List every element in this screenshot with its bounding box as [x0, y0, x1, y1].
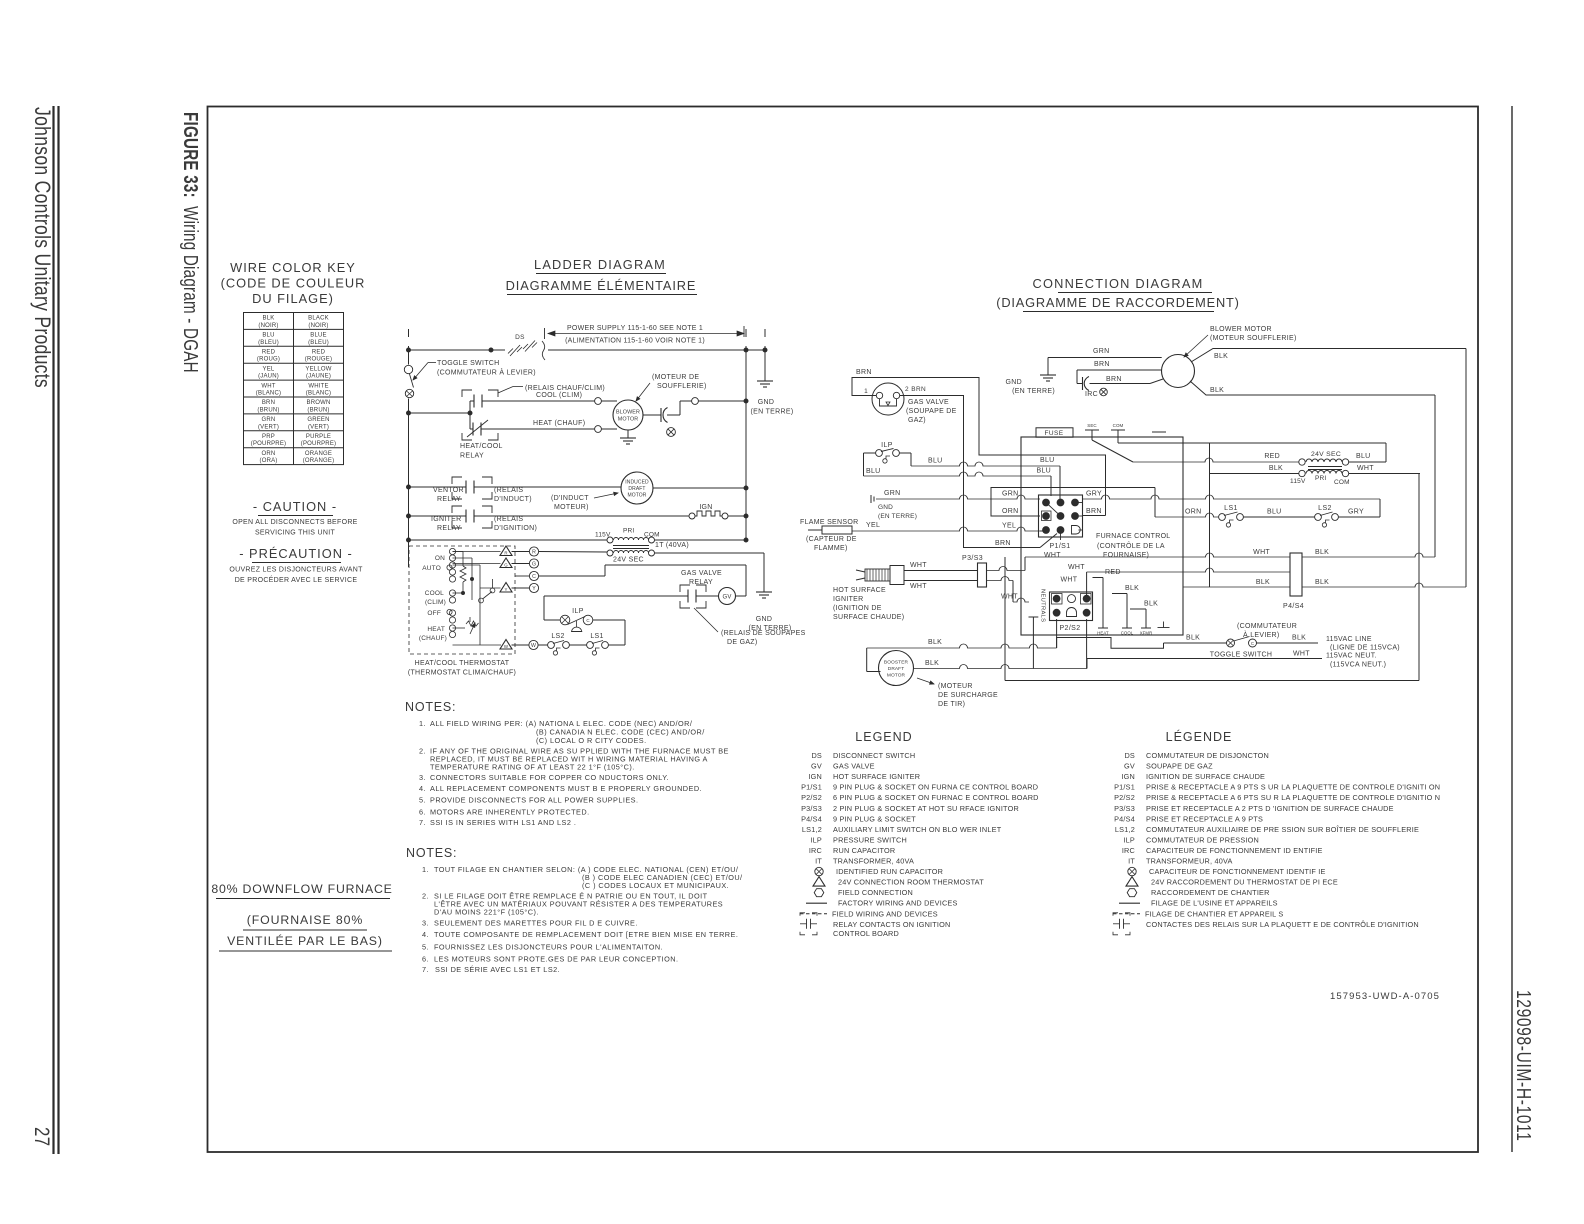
svg-text:(RELAIS: (RELAIS [494, 516, 523, 523]
svg-text:MOTOR: MOTOR [887, 673, 906, 679]
svg-text:SURFACE CHAUDE): SURFACE CHAUDE) [833, 614, 904, 621]
wire cool rung [482, 400, 595, 402]
wire WHT primary [1349, 473, 1420, 475]
svg-text:BLU: BLU [1040, 457, 1055, 464]
svg-text:FIELD WIRING AND DEVICES: FIELD WIRING AND DEVICES [832, 909, 938, 918]
wire color key table [244, 313, 344, 465]
svg-text:ORN: ORN [1185, 509, 1201, 516]
svg-text:GAS VALVE: GAS VALVE [908, 399, 949, 406]
wire BLK primary [1210, 473, 1299, 475]
svg-text:3.: 3. [422, 919, 429, 928]
svg-text:FLAME SENSOR: FLAME SENSOR [800, 519, 858, 526]
figure border box [208, 107, 1479, 1153]
svg-text:9 PIN PLUG & SOCKET: 9 PIN PLUG & SOCKET [833, 814, 916, 823]
svg-text:24V RACCORDEMENT DU THERMOSTAT: 24V RACCORDEMENT DU THERMOSTAT DE PI ECE [1151, 878, 1338, 887]
svg-text:LÉGENDE: LÉGENDE [1166, 729, 1233, 744]
svg-text:6.: 6. [422, 955, 429, 964]
svg-text:BLU: BLU [1267, 509, 1282, 516]
ground 24V [756, 591, 772, 593]
svg-text:WHT: WHT [261, 383, 275, 389]
svg-text:P1/S1: P1/S1 [801, 783, 822, 792]
svg-text:WHT: WHT [1357, 465, 1374, 472]
svg-text:115VAC NEUT.: 115VAC NEUT. [1326, 653, 1377, 660]
svg-text:(MOTEUR DE: (MOTEUR DE [652, 374, 699, 381]
svg-text:BRN: BRN [856, 369, 872, 376]
svg-text:DE GAZ): DE GAZ) [727, 639, 758, 646]
svg-text:WHT: WHT [1061, 577, 1078, 584]
boundary bottom neutral bus [1004, 557, 1006, 681]
svg-text:BRN: BRN [1106, 376, 1122, 383]
svg-text:IGN: IGN [808, 772, 822, 781]
svg-text:BLK: BLK [1292, 635, 1306, 642]
svg-text:1.: 1. [419, 719, 426, 728]
svg-text:FOURNISSEZ LES DISJONCTEURS PO: FOURNISSEZ LES DISJONCTEURS POUR L'ALIME… [434, 943, 663, 952]
svg-text:WHITE: WHITE [308, 383, 328, 389]
svg-text:DS: DS [811, 751, 822, 760]
svg-text:CONTACTES DES RELAIS SUR LA PL: CONTACTES DES RELAIS SUR LA PLAQUETT E D… [1146, 920, 1419, 929]
neutral terminal bar lower [1029, 616, 1039, 618]
svg-text:BLOWER: BLOWER [616, 410, 640, 416]
svg-text:4.: 4. [419, 784, 426, 793]
toggle switch DS1 on left rail [404, 365, 412, 373]
wire BRN to P1S1 [1040, 534, 1057, 548]
svg-text:(RELAIS DE SOUPAPES: (RELAIS DE SOUPAPES [721, 630, 806, 637]
svg-text:TOGGLE SWITCH: TOGGLE SWITCH [1210, 652, 1273, 659]
wire gas valve rung [544, 595, 688, 597]
svg-text:FOURNAISE): FOURNAISE) [1103, 552, 1149, 559]
transformer 1T [607, 537, 613, 543]
svg-text:RED: RED [262, 350, 276, 356]
svg-text:CAPACITEUR DE FONCTIONNEMENT I: CAPACITEUR DE FONCTIONNEMENT ID ENTIFIE [1146, 846, 1323, 855]
svg-text:HEAT/COOL: HEAT/COOL [460, 443, 503, 450]
svg-text:(SOUPAPE DE: (SOUPAPE DE [906, 408, 957, 415]
svg-text:P1/S1: P1/S1 [1114, 783, 1135, 792]
svg-text:GRN: GRN [1093, 348, 1109, 355]
svg-text:(BRUN): (BRUN) [307, 407, 329, 413]
svg-text:RED: RED [1105, 569, 1121, 576]
thermostat terminals [449, 548, 455, 554]
svg-text:XFMR: XFMR [1140, 631, 1153, 636]
svg-text:PRESSURE SWITCH: PRESSURE SWITCH [833, 835, 907, 844]
thermostat fan switch [479, 598, 484, 603]
svg-text:PURPLE: PURPLE [306, 434, 331, 440]
svg-text:(C) LOCAL O R CITY CODES.: (C) LOCAL O R CITY CODES. [536, 736, 647, 745]
node right rail [745, 329, 747, 337]
svg-text:FILAGE DE CHANTIER ET APPAREIL: FILAGE DE CHANTIER ET APPAREIL S [1145, 909, 1283, 918]
svg-text:IT: IT [1128, 857, 1135, 866]
svg-text:TEMPERATURE RATING OF AT LEAST: TEMPERATURE RATING OF AT LEAST 22 1°F (1… [430, 763, 635, 772]
svg-text:RACCORDEMENT DE CHANTIER: RACCORDEMENT DE CHANTIER [1151, 888, 1270, 897]
svg-text:5.: 5. [419, 796, 426, 805]
svg-text:YELLOW: YELLOW [305, 366, 331, 372]
svg-text:PRP: PRP [262, 434, 275, 440]
svg-text:ORN: ORN [1002, 508, 1018, 515]
wire 24V R [539, 551, 608, 554]
svg-text:(RELAIS CHAUF/CLIM): (RELAIS CHAUF/CLIM) [525, 385, 605, 392]
svg-text:GAS VALVE: GAS VALVE [681, 570, 722, 577]
svg-text:IGN: IGN [699, 504, 712, 511]
page left double rule [52, 106, 54, 1154]
wire ILP to LS1 [593, 619, 625, 621]
svg-text:BROWN: BROWN [307, 400, 331, 406]
svg-text:7.: 7. [422, 965, 429, 974]
svg-text:Wiring Diagram - DGAH: Wiring Diagram - DGAH [179, 206, 202, 373]
svg-text:(VERT): (VERT) [308, 424, 329, 430]
svg-text:(BLEU): (BLEU) [308, 340, 329, 346]
svg-text:BLK: BLK [1214, 353, 1228, 360]
thermostat internal wiring [453, 551, 464, 553]
svg-text:D'INDUCT): D'INDUCT) [494, 496, 532, 503]
svg-text:IGNITER: IGNITER [431, 516, 462, 523]
svg-text:P4/S4: P4/S4 [1114, 814, 1135, 823]
svg-text:NOTES:: NOTES: [406, 846, 457, 860]
plug P4/S4 [1290, 553, 1302, 596]
svg-text:24V CONNECTION ROOM THERMOSTAT: 24V CONNECTION ROOM THERMOSTAT [838, 878, 984, 887]
svg-text:COOL (CLIM): COOL (CLIM) [536, 392, 582, 399]
terminal C [515, 575, 530, 577]
svg-text:P4/S4: P4/S4 [1283, 603, 1304, 610]
svg-text:DISCONNECT SWITCH: DISCONNECT SWITCH [833, 751, 915, 760]
svg-text:Johnson Controls Unitary Produ: Johnson Controls Unitary Products [29, 107, 53, 388]
svg-text:IDENTIFIED RUN CAPACITOR: IDENTIFIED RUN CAPACITOR [836, 867, 943, 876]
power supply dimension [544, 328, 546, 339]
wire igniter rung [474, 515, 689, 517]
svg-text:À LEVIER): À LEVIER) [1243, 630, 1280, 639]
svg-text:WIRE COLOR KEY: WIRE COLOR KEY [230, 260, 356, 275]
svg-text:P1/S1: P1/S1 [1049, 543, 1070, 550]
svg-text:COOL: COOL [1121, 631, 1134, 636]
svg-text:PROVIDE DISCONNECTS FOR ALL PO: PROVIDE DISCONNECTS FOR ALL POWER SUPPLI… [430, 796, 638, 805]
svg-text:YEL: YEL [1002, 523, 1016, 530]
svg-text:YEL: YEL [866, 522, 880, 529]
terminal XFMR [1141, 627, 1151, 629]
svg-text:OFF: OFF [427, 610, 441, 617]
svg-text:BLK: BLK [1186, 635, 1200, 642]
svg-text:(FOURNAISE 80%: (FOURNAISE 80% [247, 913, 363, 927]
svg-text:2 PIN PLUG & SOCKET AT HOT SU: 2 PIN PLUG & SOCKET AT HOT SU RFACE IGNI… [833, 804, 1019, 813]
svg-text:LS1,2: LS1,2 [1115, 825, 1135, 834]
svg-text:BRN: BRN [995, 540, 1011, 547]
svg-text:(THERMOSTAT CLIMA/CHAUF): (THERMOSTAT CLIMA/CHAUF) [408, 670, 516, 677]
svg-text:PRI: PRI [623, 528, 634, 535]
svg-text:(CODE DE COULEUR: (CODE DE COULEUR [221, 276, 366, 291]
svg-text:WHT: WHT [1044, 552, 1061, 559]
svg-text:C: C [532, 574, 536, 580]
thermostat heat anticipator [469, 617, 471, 622]
svg-text:TRANSFORMEUR, 40VA: TRANSFORMEUR, 40VA [1146, 857, 1233, 866]
svg-text:BLK: BLK [925, 660, 939, 667]
svg-text:2.: 2. [422, 892, 429, 901]
identified run capacitor symbol [667, 428, 676, 437]
wire 24V sec right to ground [655, 552, 765, 554]
relay contact cool NO [470, 400, 474, 402]
svg-text:POWER SUPPLY 115-1-60 SEE NOTE: POWER SUPPLY 115-1-60 SEE NOTE 1 [567, 325, 703, 332]
svg-text:BOOSTER: BOOSTER [884, 660, 909, 666]
transformer 1T rung [409, 539, 608, 541]
pressure switch ILP ladder [560, 615, 570, 625]
svg-text:RELAY: RELAY [460, 453, 484, 460]
svg-text:CONNECTORS SUITABLE FOR COPPER: CONNECTORS SUITABLE FOR COPPER CO NDUCTO… [430, 773, 669, 782]
svg-text:OPEN ALL DISCONNECTS BEFORE: OPEN ALL DISCONNECTS BEFORE [232, 519, 357, 526]
svg-text:RELAY: RELAY [689, 579, 713, 586]
wire BLK jog to toggle switch [1057, 638, 1164, 649]
svg-text:LS1: LS1 [1224, 505, 1238, 512]
wire WHT P3S3 to P4S4 [987, 567, 1026, 571]
svg-text:YEL: YEL [263, 366, 275, 372]
svg-text:LEGEND: LEGEND [855, 730, 912, 744]
svg-text:IRC: IRC [1085, 391, 1098, 398]
svg-text:P2/S2: P2/S2 [1059, 625, 1080, 632]
svg-text:BLK: BLK [1210, 387, 1224, 394]
svg-text:(ROUG): (ROUG) [257, 357, 280, 363]
svg-text:IGNITION DE SURFACE CHAUDE: IGNITION DE SURFACE CHAUDE [1146, 772, 1265, 781]
svg-text:ORN: ORN [262, 451, 276, 457]
svg-text:PRISE & RECEPTACLE A 6 PTS SU: PRISE & RECEPTACLE A 6 PTS SU R LA PLAQU… [1146, 793, 1440, 802]
svg-text:C: C [1251, 641, 1254, 646]
terminal COOL [1122, 627, 1132, 629]
run capacitor IRC connection [1076, 370, 1078, 384]
svg-text:6 PIN PLUG & SOCKET ON FURNAC: 6 PIN PLUG & SOCKET ON FURNAC E CONTROL … [833, 793, 1039, 802]
svg-text:157953-UWD-A-0705: 157953-UWD-A-0705 [1330, 991, 1440, 1002]
run capacitor IRC ladder [643, 414, 661, 416]
svg-text:129098-UIM-H-1011: 129098-UIM-H-1011 [1513, 990, 1535, 1142]
svg-text:COMMUTATEUR DE DISJONCTON: COMMUTATEUR DE DISJONCTON [1146, 751, 1269, 760]
svg-text:DE TIR): DE TIR) [938, 701, 965, 708]
svg-text:BLK: BLK [1269, 465, 1283, 472]
svg-text:(BLANC): (BLANC) [306, 391, 331, 397]
svg-text:GAZ): GAZ) [908, 417, 926, 424]
wire top rung [409, 349, 506, 351]
terminal Y [512, 587, 530, 589]
svg-text:GND: GND [758, 399, 774, 406]
wire vertical to ORN [1154, 488, 1156, 518]
svg-text:P2/S2: P2/S2 [1114, 793, 1135, 802]
svg-text:LS1,2: LS1,2 [802, 825, 822, 834]
wire W rung [538, 644, 548, 646]
svg-text:P3/S3: P3/S3 [801, 804, 822, 813]
gas valve relay frame [680, 585, 690, 592]
terminal G [512, 563, 530, 565]
svg-text:MOTEUR): MOTEUR) [554, 504, 589, 511]
svg-text:(JAUNE): (JAUNE) [306, 374, 331, 380]
svg-text:(COMMUTATEUR À LEVIER): (COMMUTATEUR À LEVIER) [437, 368, 536, 377]
svg-text:Y: Y [532, 586, 536, 592]
svg-text:1T (40VA): 1T (40VA) [655, 542, 689, 549]
svg-text:(D'INDUCT: (D'INDUCT [551, 495, 589, 502]
svg-text:BLACK: BLACK [308, 316, 329, 322]
svg-text:C: C [586, 618, 590, 623]
svg-text:FILAGE DE L'USINE ET APPAREILS: FILAGE DE L'USINE ET APPAREILS [1151, 899, 1278, 908]
svg-text:COMMUTATEUR AUXILIAIRE DE PRE: COMMUTATEUR AUXILIAIRE DE PRE SSION SUR … [1146, 825, 1419, 834]
induced draft motor [621, 472, 653, 504]
wire gas valve pin1 BRN [852, 378, 1106, 516]
svg-text:G: G [532, 561, 536, 567]
svg-text:(POURPRE): (POURPRE) [251, 441, 286, 447]
svg-text:IT: IT [815, 857, 822, 866]
booster draft motor [879, 651, 914, 686]
svg-text:BLU: BLU [866, 468, 881, 475]
svg-text:R: R [504, 551, 507, 556]
svg-text:(COMMUTATEUR: (COMMUTATEUR [1237, 623, 1297, 630]
fuse F1 [1036, 428, 1073, 437]
wire COM loop [1118, 442, 1386, 444]
svg-text:TOUTE COMPOSANTE DE REMPLACEME: TOUTE COMPOSANTE DE REMPLACEMENT DOIT [E… [434, 930, 738, 939]
svg-text:IGNITER: IGNITER [833, 596, 864, 603]
svg-text:BLK: BLK [1256, 579, 1270, 586]
svg-text:DE PROCÉDER AVEC LE SERVICE: DE PROCÉDER AVEC LE SERVICE [235, 575, 358, 584]
svg-text:80% DOWNFLOW FURNACE: 80% DOWNFLOW FURNACE [211, 882, 392, 896]
svg-text:ILP: ILP [572, 608, 584, 615]
svg-text:(EN TERRE): (EN TERRE) [751, 409, 794, 416]
svg-text:HEAT: HEAT [1097, 631, 1109, 636]
svg-text:(ORANGE): (ORANGE) [303, 458, 335, 464]
svg-text:3.: 3. [419, 773, 426, 782]
blower motor connection [1162, 355, 1195, 388]
svg-text:5.: 5. [422, 943, 429, 952]
svg-text:BRN: BRN [1086, 508, 1102, 515]
svg-text:BLUE: BLUE [310, 333, 326, 339]
svg-text:FIELD CONNECTION: FIELD CONNECTION [838, 888, 913, 897]
svg-text:FACTORY WIRING AND DEVICES: FACTORY WIRING AND DEVICES [838, 899, 958, 908]
svg-text:PRI: PRI [1315, 475, 1326, 482]
terminal W [512, 644, 530, 646]
svg-text:GRY: GRY [1086, 491, 1102, 498]
svg-text:(CONTRÔLE DE LA: (CONTRÔLE DE LA [1097, 541, 1165, 550]
svg-text:HEAT: HEAT [427, 626, 445, 633]
svg-text:(BLEU): (BLEU) [258, 340, 279, 346]
relay contact heat NC [470, 428, 473, 430]
svg-text:24V SEC: 24V SEC [1311, 451, 1341, 458]
wire cool to right rail [680, 400, 692, 402]
svg-text:RED: RED [1264, 453, 1280, 460]
svg-text:DRAFT: DRAFT [628, 486, 645, 492]
svg-text:1: 1 [864, 388, 868, 395]
svg-text:FURNACE CONTROL: FURNACE CONTROL [1096, 533, 1171, 540]
svg-text:1.: 1. [422, 865, 429, 874]
svg-text:D'AU MOINS 221°F (105°C).: D'AU MOINS 221°F (105°C). [434, 908, 539, 917]
svg-text:115V: 115V [1290, 478, 1306, 485]
svg-text:LS2: LS2 [551, 633, 564, 640]
svg-text:DIAGRAMME ÉLÉMENTAIRE: DIAGRAMME ÉLÉMENTAIRE [506, 278, 697, 293]
svg-text:ON: ON [435, 555, 445, 562]
node L1 left rail [408, 346, 410, 365]
svg-text:PRISE ET RECEPTACLE A 9 PTS: PRISE ET RECEPTACLE A 9 PTS [1146, 814, 1263, 823]
svg-text:WHT: WHT [1293, 651, 1310, 658]
svg-text:SERVICING THIS UNIT: SERVICING THIS UNIT [255, 530, 336, 537]
wire heat rung [481, 428, 595, 430]
svg-text:IRC: IRC [1122, 846, 1135, 855]
svg-text:(POURPRE): (POURPRE) [301, 441, 336, 447]
hot surface igniter IGN element [689, 513, 695, 519]
svg-text:GRY: GRY [1348, 509, 1364, 516]
terminal HEAT [1098, 627, 1108, 629]
svg-text:(VERT): (VERT) [258, 424, 279, 430]
svg-text:(NOIR): (NOIR) [308, 323, 328, 329]
svg-text:(NOIR): (NOIR) [258, 323, 278, 329]
ground blower connection [1047, 358, 1049, 376]
ground blower motor [627, 430, 629, 438]
svg-text:(MOTEUR SOUFFLERIE): (MOTEUR SOUFFLERIE) [1210, 335, 1297, 342]
wire GRY pin stub [1078, 502, 1082, 504]
svg-text:(BRUN): (BRUN) [257, 407, 279, 413]
svg-text:P2/S2: P2/S2 [801, 793, 822, 802]
node gnd rail top [764, 329, 766, 337]
svg-text:SOUPAPE DE GAZ: SOUPAPE DE GAZ [1146, 762, 1213, 771]
svg-text:AUTO: AUTO [422, 565, 441, 572]
svg-text:BLU: BLU [262, 333, 274, 339]
svg-text:BLK: BLK [1125, 585, 1139, 592]
hot surface igniter HSI [856, 570, 865, 572]
svg-text:COMMUTATEUR DE PRESSION: COMMUTATEUR DE PRESSION [1146, 835, 1259, 844]
svg-text:P3/S3: P3/S3 [1114, 804, 1135, 813]
wire gas valve pin2 BRN [900, 396, 1040, 548]
svg-text:WHT: WHT [1068, 564, 1085, 571]
svg-text:RED: RED [312, 350, 326, 356]
svg-text:Y: Y [505, 587, 508, 592]
svg-text:SSI DE SÉRIE AVEC LS1 ET LS2.: SSI DE SÉRIE AVEC LS1 ET LS2. [435, 965, 560, 974]
svg-text:GRN: GRN [884, 490, 900, 497]
ground top right [757, 380, 773, 382]
svg-text:- PRÉCAUTION -: - PRÉCAUTION - [239, 546, 353, 561]
svg-text:NOTES:: NOTES: [405, 700, 456, 714]
svg-text:D'IGNITION): D'IGNITION) [494, 525, 537, 532]
svg-text:WHT: WHT [910, 583, 927, 590]
svg-text:27: 27 [29, 1127, 52, 1146]
svg-text:RUN CAPACITOR: RUN CAPACITOR [833, 846, 895, 855]
svg-text:INDUCED: INDUCED [625, 480, 649, 486]
wire P2S2 pin down [1086, 619, 1088, 669]
svg-text:P4/S4: P4/S4 [801, 814, 822, 823]
svg-text:AUXILIARY LIMIT SWITCH ON BLO: AUXILIARY LIMIT SWITCH ON BLO WER INLET [833, 825, 1002, 834]
svg-text:GREEN: GREEN [307, 417, 329, 423]
svg-text:(LIGNE DE 115VCA): (LIGNE DE 115VCA) [1330, 645, 1400, 652]
svg-text:(IGNITION DE: (IGNITION DE [833, 605, 882, 612]
blower motor B1 [613, 400, 643, 430]
ventor relay contact [409, 486, 467, 488]
svg-text:BLU: BLU [928, 458, 943, 465]
svg-text:(BLANC): (BLANC) [256, 391, 281, 397]
svg-text:LES MOTEURS SONT PROTE.GES DE: LES MOTEURS SONT PROTE.GES DE PAR LEUR C… [434, 955, 678, 964]
svg-text:MOTOR: MOTOR [618, 417, 638, 423]
svg-text:(EN TERRE): (EN TERRE) [1012, 388, 1055, 395]
svg-text:G: G [504, 563, 508, 568]
field connection node cool [595, 398, 602, 405]
svg-text:R: R [532, 549, 536, 555]
svg-text:BLK: BLK [1315, 549, 1329, 556]
svg-text:(CLIM): (CLIM) [425, 599, 446, 606]
svg-text:(ROUGE): (ROUGE) [305, 357, 332, 363]
svg-text:ORANGE: ORANGE [305, 451, 332, 457]
svg-text:FIGURE 33:: FIGURE 33: [179, 112, 202, 198]
svg-text:PRISE & RECEPTACLE A 9 PTS S: PRISE & RECEPTACLE A 9 PTS S UR LA PLAQU… [1146, 783, 1440, 792]
svg-text:DS: DS [1124, 751, 1135, 760]
svg-text:(ALIMENTATION 115-1-60 VOIR NO: (ALIMENTATION 115-1-60 VOIR NOTE 1) [565, 338, 705, 345]
wire ventor rung [474, 486, 621, 488]
svg-text:W: W [531, 643, 536, 649]
svg-text:OUVREZ LES DISJONCTEURS AVANT: OUVREZ LES DISJONCTEURS AVANT [229, 567, 363, 574]
plug P1/S1 [1039, 495, 1083, 537]
thermostat triangle terminals [453, 551, 501, 553]
svg-text:WHT: WHT [1001, 594, 1018, 601]
svg-text:- CAUTION -: - CAUTION - [253, 499, 337, 514]
svg-text:ILP: ILP [810, 835, 822, 844]
svg-text:6.: 6. [419, 808, 426, 817]
svg-text:GND: GND [878, 504, 893, 511]
svg-text:COOL: COOL [425, 590, 444, 597]
svg-text:DU FILAGE): DU FILAGE) [252, 291, 334, 306]
svg-text:COM: COM [1113, 423, 1124, 428]
svg-text:IGN: IGN [1121, 772, 1135, 781]
